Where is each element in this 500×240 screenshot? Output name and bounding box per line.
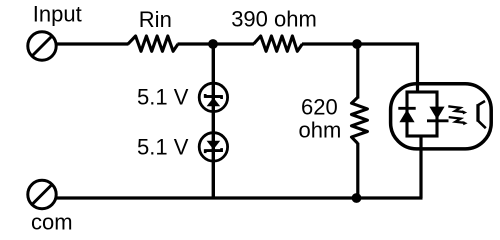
wire top rail segment 2 — [178, 42, 255, 45]
zener diode D2 triangle — [207, 141, 221, 150]
svg-text:620: 620 — [301, 95, 338, 120]
phototransistor collector lead — [478, 101, 485, 105]
photon ray 2 arrowhead — [463, 121, 468, 125]
wire bottom rail — [56, 196, 423, 199]
LED right (down) triangle — [429, 107, 444, 120]
node junction dot C — [352, 193, 362, 203]
svg-text:390 ohm: 390 ohm — [231, 7, 317, 32]
resistor 620 ohm vertical — [352, 97, 368, 143]
wire top rail segment 3 with corner down to opto — [302, 44, 418, 93]
wire opto lower lead to bottom rail — [419, 135, 422, 198]
svg-text:com: com — [31, 210, 73, 235]
optocoupler U1 body — [391, 84, 492, 149]
svg-text:5.1 V: 5.1 V — [137, 85, 189, 110]
zener diode D1 5.1V circle — [199, 83, 227, 111]
node junction dot B — [352, 39, 362, 49]
photon ray 1 arrowhead — [462, 110, 467, 114]
photon ray 1 — [448, 106, 464, 112]
wire 620 branch upper — [356, 44, 359, 99]
svg-text:5.1 V: 5.1 V — [137, 135, 189, 160]
terminal Input — [28, 32, 56, 60]
zener diode D2 anode bar — [205, 148, 221, 153]
phototransistor base bar — [476, 104, 479, 121]
phototransistor emitter lead — [478, 121, 486, 129]
zener diode D2 5.1V circle — [199, 133, 227, 161]
optocoupler LED pair box — [407, 92, 437, 136]
photon ray 2 — [449, 117, 465, 123]
node junction dot A — [208, 39, 218, 49]
LED left (up) cathode bar — [398, 107, 415, 110]
resistor 390 ohm — [254, 36, 303, 51]
resistor Rin — [128, 36, 178, 51]
svg-text:Input: Input — [33, 2, 82, 27]
zener diode D1 triangle — [207, 98, 221, 107]
wire top rail segment 1 — [56, 42, 129, 45]
wire 620 branch lower — [356, 143, 359, 198]
terminal com — [28, 180, 56, 208]
svg-text:ohm: ohm — [299, 118, 342, 143]
wire vertical zener branch — [212, 44, 215, 198]
LED right (down) cathode bar — [427, 119, 449, 122]
LED left (up) triangle — [399, 110, 414, 123]
zener diode D1 cathode bar — [205, 94, 221, 99]
svg-text:Rin: Rin — [139, 7, 172, 32]
